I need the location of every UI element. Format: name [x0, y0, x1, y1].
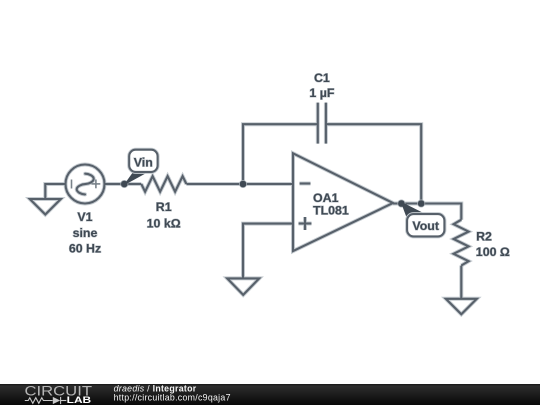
svg-text:R2: R2 — [476, 229, 492, 243]
svg-text:Vin: Vin — [134, 155, 153, 169]
svg-text:R1: R1 — [156, 200, 172, 214]
svg-text:TL081: TL081 — [313, 204, 349, 218]
svg-text:C1: C1 — [314, 71, 330, 85]
svg-text:1 µF: 1 µF — [309, 86, 334, 100]
svg-text:sine: sine — [73, 226, 98, 240]
svg-text:10 kΩ: 10 kΩ — [147, 217, 181, 231]
svg-text:60 Hz: 60 Hz — [69, 242, 101, 256]
svg-text:LAB: LAB — [67, 395, 92, 405]
svg-text:http://circuitlab.com/c9qaja7: http://circuitlab.com/c9qaja7 — [114, 393, 231, 403]
svg-text:V1: V1 — [77, 210, 92, 224]
svg-text:Vout: Vout — [412, 219, 439, 233]
svg-text:100 Ω: 100 Ω — [476, 245, 510, 259]
